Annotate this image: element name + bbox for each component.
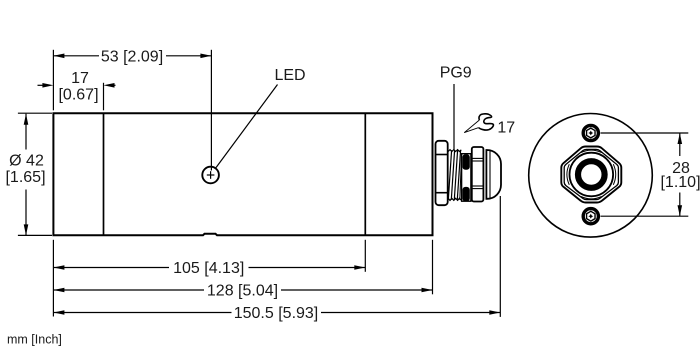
gland dome cap — [486, 150, 501, 199]
dimension 17 arrows outside — [38, 84, 45, 86]
svg-text:[0.67]: [0.67] — [58, 86, 98, 103]
LED indicator marker — [202, 167, 219, 184]
front gland circle — [570, 153, 614, 197]
svg-text:[1.10]: [1.10] — [660, 174, 700, 191]
svg-text:LED: LED — [274, 67, 305, 84]
top screw — [583, 125, 598, 140]
dimension 150.5 extension line right — [499, 196, 501, 317]
gland seal section — [462, 154, 471, 202]
body seam line at 17mm — [103, 113, 105, 235]
sensor body outline — [53, 113, 432, 235]
dimension 53 line — [53, 55, 99, 57]
svg-text:17: 17 — [497, 120, 515, 137]
dimension 53 extension line left — [52, 50, 54, 111]
PG9 leader line — [453, 84, 455, 150]
svg-text:mm [Inch]: mm [Inch] — [7, 333, 62, 347]
svg-text:[1.65]: [1.65] — [5, 169, 45, 186]
svg-text:53 [2.09]: 53 [2.09] — [101, 49, 163, 66]
diameter 42 extension lines — [18, 112, 52, 114]
front hex nut inner — [564, 149, 618, 199]
dimension 150.5 line — [53, 312, 231, 314]
dimension 53 extension line right — [210, 50, 212, 171]
front view outer circle — [529, 114, 653, 238]
gland collar hex (side view) — [436, 141, 448, 205]
svg-text:17: 17 — [71, 70, 89, 87]
dimension 28 leader bottom — [601, 215, 689, 217]
front gland dark ring — [578, 161, 605, 188]
wrench icon — [464, 114, 493, 133]
dimension 105 extension line right — [364, 240, 366, 272]
dimension 28 leader top — [601, 132, 689, 134]
dimension 128 line — [53, 289, 204, 291]
gland hex nut (side view) — [472, 147, 484, 202]
bottom screw — [583, 209, 598, 224]
body seam line at 105mm — [364, 113, 366, 235]
LED leader line — [216, 85, 278, 168]
dimension 28 line — [679, 133, 681, 156]
seal dark upper — [462, 154, 469, 170]
gland thread section — [448, 150, 461, 201]
svg-text:Ø 42: Ø 42 — [9, 153, 44, 170]
dimension 128 extension line right — [432, 240, 434, 294]
svg-text:128 [5.04]: 128 [5.04] — [207, 283, 278, 300]
dimension 17 extension line — [103, 83, 105, 111]
svg-text:105 [4.13]: 105 [4.13] — [173, 260, 244, 277]
svg-text:PG9: PG9 — [440, 64, 472, 81]
svg-text:150.5 [5.93]: 150.5 [5.93] — [234, 305, 319, 322]
bottom shared extension line left — [52, 240, 54, 317]
dimension 105 line — [53, 267, 169, 269]
front nut chamfer arcs — [567, 150, 616, 199]
front hex nut outer — [561, 147, 621, 203]
seal dark lower — [462, 187, 469, 201]
diameter 42 dimension line — [25, 114, 27, 150]
